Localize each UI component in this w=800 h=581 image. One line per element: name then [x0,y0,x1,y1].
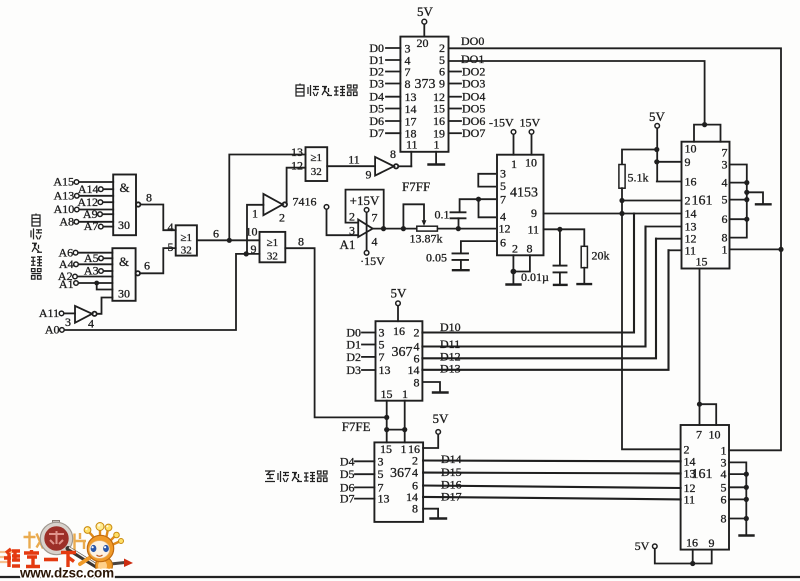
svg-text:6: 6 [722,212,728,226]
capacitor C3 lead to ground [559,272,561,284]
wire U5 pins 15 1 down to U6 pins 15 1 with bridge [387,401,405,443]
red spear tip [124,559,133,568]
wire A1 supply rail pin7 to pin4 [366,212,368,251]
svg-text:D4: D4 [340,454,355,468]
wire U3 pin 13 from D11 riser [646,226,682,228]
terminal A9 [98,212,103,217]
terminal 5V right [655,124,660,129]
wire D3 to U5 pin 13 [362,369,376,371]
svg-text:5V: 5V [433,411,450,426]
OR gate G5 74LS32 body [260,232,286,262]
wire net DO0 from U1 pin 2 right then down right edge to U4 pin 1 [449,48,782,450]
wire G1 output 8 to OR gate G3 input 4 [140,205,175,231]
svg-text:4: 4 [88,317,94,331]
wire U2 pin 9 output to clock bus and U3 pin 14 row [544,213,682,215]
wire net D16 from U6 pin 6 to U4 pin 12 [423,486,680,489]
terminal A2 [73,274,78,279]
trimmer arrow head [422,220,427,226]
svg-text:D14: D14 [441,452,462,466]
ground bar under U2 pin 2 [507,283,521,285]
5V lead to U5 pin 16 [397,306,399,322]
terminal -15V at U2 [511,130,516,135]
mascot antenna stalks [89,529,120,546]
svg-text:7416: 7416 [293,195,317,209]
svg-text:7: 7 [500,193,506,207]
wire A6 input to G2 [78,252,113,254]
svg-text:≥1: ≥1 [311,152,323,164]
svg-text:A1: A1 [59,277,74,291]
text wei ku yi xia red [4,549,76,567]
svg-text:7: 7 [696,428,702,442]
svg-text:A11: A11 [39,306,59,320]
ground stub from U3 output rail [747,192,763,204]
mascot left arm [80,558,90,565]
junction node DO0 at U3 pin 1 [778,247,783,252]
svg-text:11: 11 [685,243,697,257]
svg-text:10: 10 [246,225,258,239]
text zhi wei chu li qi left of U6 [265,471,275,482]
junction node G3 output to G4 branch [227,238,232,243]
svg-text:16: 16 [686,536,698,550]
svg-text:www.dzsc.com: www.dzsc.com [19,566,114,581]
5V wire at U4 pins 16 and 9 [655,549,712,564]
svg-text:11: 11 [527,223,539,237]
ground bar under U4 rail [740,534,754,536]
wire U1 pin 11 latch enable down to inverter output [410,152,412,167]
svg-text:&: & [119,180,129,195]
junction node 5V lower [654,159,659,164]
wire DO5 stub U1 pin 15 [449,108,462,110]
wire A12 input to G1 [103,201,114,203]
wire A3 input to G2 [103,270,112,272]
wire G8 output to U1 pin 11 [398,165,411,167]
svg-text:9: 9 [366,168,372,182]
junction node U3 rail pin 5 [744,197,749,202]
svg-text:1: 1 [511,157,517,171]
svg-text:A0: A0 [45,323,60,337]
wire R1 bottom to clock bus vertical and U4 pin 2 [622,188,681,449]
mascot legs [95,570,102,576]
magnifier knob [53,521,60,525]
ground bar under U6 pin 8 [431,517,447,519]
resistor R3 lead to ground [583,268,585,284]
svg-text:5V: 5V [417,4,434,19]
ground bar under C2 [453,269,469,271]
terminal A15 [74,180,79,185]
U4 clock jumper loop pins 7-10 [700,404,717,425]
svg-text:9: 9 [531,206,537,220]
svg-text:1: 1 [722,242,728,256]
junction node U3 rail pin 6 [744,217,749,222]
inverter G8 output bubble [394,164,398,168]
junction node clock bus U2 pin9 [619,211,624,216]
svg-text:5V: 5V [649,109,666,124]
NAND gate G1 74LS30 body [113,175,136,236]
terminal 15V at U2 [529,130,534,135]
svg-text:2: 2 [414,326,420,340]
terminal A1 [74,281,79,286]
mascot body [96,557,113,574]
5V supply wire to U1 pin 20 [423,24,425,36]
5V wire to node above 5.1k and U3 [657,128,682,182]
wire U2 pins 2 and 8 ground loop [513,255,530,284]
text zi wei chu li qi vertical at far left [32,214,40,227]
text zi wei chu li qi horizontal above U1 [296,84,304,97]
svg-text:20: 20 [417,36,429,50]
wire U4 pin 8 to rail [729,518,746,520]
svg-text:15: 15 [696,255,708,269]
text zhao outlined [24,532,44,549]
wire D6 stub to U1 pin 17 [386,120,400,122]
U3 clock jumper loop pins 10-7 [694,125,721,142]
svg-text:A8: A8 [59,214,74,228]
ground bar under C3 [554,284,567,286]
wire A0 from terminal to OR gate G5 input 9 [64,254,259,330]
capacitor C3 plate top [554,265,567,267]
mascot head hood [87,535,113,561]
wire branch up to OR gate G4 input 13 [229,155,305,241]
svg-text:D5: D5 [340,467,355,481]
svg-text:·15V: ·15V [360,254,385,268]
svg-text:D17: D17 [441,490,462,504]
staff extension to red tip [96,563,125,566]
wire net D10 from U5 pin 2 up to U3 pin 14 [422,214,634,333]
terminal A12 [98,200,103,205]
wire U3 pin 11 from D13 riser [669,249,682,251]
IC U5 74367 buffer body [376,321,423,401]
svg-text:16: 16 [393,324,405,338]
wire net D11 from U5 pin 4 up to U3 pin 13 [422,227,645,347]
OR gate G4 74LS32 body [306,147,328,181]
wire D2 to U5 pin 7 [362,356,376,358]
ground bar right of U3 [756,203,771,205]
wire U5 pin 8 to ground [422,382,440,392]
terminal 5V at U5 [396,301,401,306]
svg-text:2: 2 [279,211,285,225]
capacitor C3 plate bottom [554,271,567,273]
wire U4 pin 3 to tied outputs rail [729,462,746,535]
resistor R2 13.87k body [417,226,438,231]
svg-text:-15V: -15V [489,116,514,130]
svg-text:3: 3 [349,224,355,238]
svg-text:4: 4 [722,176,728,190]
svg-text:11: 11 [406,138,418,152]
svg-text:F7FE: F7FE [342,419,371,434]
wire net D14 from U6 pin 2 to U4 pin 14 [423,459,680,462]
svg-text:A7: A7 [84,219,99,233]
svg-text:0.01µ: 0.01µ [521,270,549,284]
wire DO2 stub U1 pin 6 [449,71,462,73]
inverter G7 output bubble [92,312,96,316]
speed lines [0,552,12,562]
svg-text:8: 8 [412,502,418,516]
svg-text:5: 5 [378,467,384,481]
op-amp A1 triangle [358,220,373,238]
inverter G7 A11 triangle [75,306,92,323]
junction node A0 to 7416 input [244,251,249,256]
svg-text:15: 15 [381,387,393,401]
terminal A1 +15V supply [364,208,369,213]
svg-text:4: 4 [372,235,378,249]
wire U3 pin 4 to rail [730,182,747,184]
svg-text:A13: A13 [54,188,75,202]
svg-text:7: 7 [372,211,378,225]
svg-text:32: 32 [311,166,322,178]
svg-text:367: 367 [390,466,411,481]
wire G6 output up to G4 input 12 [287,168,306,204]
svg-text:12: 12 [499,222,511,236]
terminal A13 [75,194,80,199]
svg-text:A3: A3 [84,264,99,278]
wire G4 output 11 to inverter G8 input [327,165,375,167]
wire D7 stub to U1 pin 18 [386,132,400,134]
svg-text:0.1: 0.1 [435,208,450,222]
magnifier handle [68,549,97,567]
svg-text:1: 1 [434,138,440,152]
magnifier lens [42,524,70,552]
junction node U4 rail pin 6 [744,497,749,502]
svg-text:4: 4 [721,467,727,481]
wire U4 pin 6 to rail [729,498,746,500]
svg-text:13: 13 [291,145,303,159]
svg-text:1: 1 [402,387,408,401]
svg-text:8: 8 [527,242,533,256]
wire D6 to U6 pin 7 [355,486,374,488]
svg-text:8: 8 [405,77,411,91]
svg-text:6: 6 [144,259,150,273]
junction node U3 rail ground stub [744,190,749,195]
capacitor C2 plate top [453,252,469,254]
svg-text:10: 10 [525,156,537,170]
wire net D13 from U5 pin 14 up to U3 pin 11 [422,250,668,369]
junction node 5V upper [654,147,659,152]
wire D5 stub to U1 pin 14 [386,108,400,110]
wire net D15 from U6 pin 4 to U4 pin 13 [423,472,680,475]
svg-text:9: 9 [685,155,691,169]
svg-text:A14: A14 [78,182,99,196]
wire A11 to G7 input [64,312,75,314]
svg-text:9: 9 [251,242,257,256]
terminal A4 [74,262,79,267]
svg-text:5: 5 [168,240,174,254]
mascot face [89,541,109,559]
wire A14 input to G1 [103,188,113,190]
svg-text:10: 10 [709,428,721,442]
wire G5 output 8 right then down to F7FE node [285,248,386,417]
svg-text:6: 6 [213,227,219,241]
wire net DO1 from U1 pin 5 right then down to U3 clock jumper [449,61,705,125]
inverter G6 output bubble [283,202,287,206]
junction node U4 rail pin 5 [744,485,749,490]
terminal 5V at U4 [653,544,658,549]
svg-text:15V: 15V [520,116,541,130]
svg-text:4: 4 [168,220,174,234]
text pian outlined [75,533,87,551]
wire D0 stub to U1 pin 3 [386,47,400,49]
capacitor C1 0.1 top lead from 4153 pin7 wire [460,199,496,212]
wire U6 pin 8 to ground [423,509,438,518]
G1 output bubble [136,202,140,206]
terminal A8 [74,220,79,225]
svg-text:≥1: ≥1 [267,237,279,249]
svg-text:DO0: DO0 [461,34,484,48]
resistor R3 20k body [581,246,587,267]
terminal 5V at U1 [422,19,427,24]
ground bar under U5 pin 8 [433,391,448,393]
svg-text:4153: 4153 [510,186,538,201]
svg-text:4: 4 [412,466,418,480]
terminal op-amp input [324,205,329,210]
svg-text:14: 14 [685,207,697,221]
wire U4 pin 5 to rail [729,486,746,488]
junction node U3 rail pin 4 [744,180,749,185]
junction node U5 U6 bridge left [384,427,389,432]
svg-text:≥1: ≥1 [181,232,193,244]
svg-text:2: 2 [512,242,518,256]
wire A1 output to 4153 pin 12 [373,228,495,230]
svg-text:F7FF: F7FF [402,179,430,194]
junction node F7FE at U5 pin 15 [384,415,389,420]
terminal A0 [60,328,65,333]
svg-text:8: 8 [390,147,396,161]
wire D4 stub to U1 pin 13 [386,96,400,98]
svg-text:8: 8 [414,376,420,390]
svg-text:+15V: +15V [350,193,380,208]
wire net D12 from U5 pin 6 up to U3 pin 12 [422,239,656,359]
capacitor C1 bottom lead to output net [458,218,460,228]
wire A2 input to G2 [77,276,112,278]
wire A15 input to G1 [79,181,114,183]
svg-text:13.87k: 13.87k [410,232,443,246]
junction node U3 pin15 at U4 jumper [697,402,702,407]
svg-text:D2: D2 [346,350,361,364]
svg-text:161: 161 [692,467,713,482]
svg-text:367: 367 [392,345,413,360]
capacitor C3 0.01u lead from pin 11 node [559,229,561,265]
IC U6 74367 buffer body [374,442,423,522]
junction node U2 pin11 C3 [557,227,562,232]
wire A1 input to G2 with branch to second input [78,283,112,290]
svg-text:11: 11 [684,492,696,506]
ground lead U1 pin 1 [435,152,437,164]
svg-text:32: 32 [267,251,278,263]
trimmer feedback loop over R2 with arrow [403,204,424,228]
antenna bulbs [84,527,91,534]
terminal A5 [99,256,104,261]
terminal A11 [59,311,64,316]
svg-text:3: 3 [378,454,384,468]
wire G2 output 6 to OR gate G3 input 5 [140,248,176,273]
supply lead -15V to U2 pin 1 [513,134,515,155]
svg-text:2: 2 [349,210,355,224]
junction node A1 branch [94,281,99,286]
svg-text:12: 12 [291,159,303,173]
wire U3 pin 1 to DO0 line [730,248,782,250]
svg-text:DO7: DO7 [462,126,485,140]
wire 4153 pin7 branch down to pin 4 [479,199,496,217]
capacitor C2 0.05 lead from 4153 pin 6 [461,241,495,253]
junction node U4 rail pin 4 [744,472,749,477]
wire U3 pin 12 from D12 riser [656,238,682,240]
wire D4 to U6 pin 3 [355,460,374,462]
svg-text:A1: A1 [340,237,356,252]
svg-text:D7: D7 [340,492,355,506]
svg-text:0.05: 0.05 [426,251,447,265]
terminal A10 [75,207,80,212]
svg-text:161: 161 [692,194,713,209]
svg-text:13: 13 [379,363,391,377]
svg-text:D10: D10 [440,320,461,334]
wire A8 input to G1 [79,221,114,223]
wire U3 pin 5 to rail [730,199,747,201]
capacitor C1 plate bottom [451,217,466,219]
svg-text:5: 5 [722,193,728,207]
wire 5V node left to resistor R1 top [622,150,657,165]
wire clock bus to U3 pin 2 [622,200,682,202]
svg-text:30: 30 [118,287,130,301]
svg-text:D7: D7 [369,126,384,140]
svg-text:13: 13 [378,492,390,506]
ground bar under R3 [578,283,592,285]
terminal 5V at U6 [436,430,441,435]
wire DO7 stub U1 pin 19 [449,132,462,134]
resistor R1 5.1k body [619,165,625,189]
svg-text:30: 30 [118,218,130,232]
wire A10 input to G1 [79,209,113,211]
wire G6 input from A0 net [247,205,263,254]
wire DO6 stub U1 pin 16 [449,120,462,122]
svg-text:8: 8 [146,191,152,205]
bottom border line [0,576,800,578]
terminal A3 [99,269,104,274]
svg-text:1: 1 [401,442,407,456]
wire D1 stub to U1 pin 4 [386,59,400,61]
svg-text:6: 6 [500,236,506,250]
svg-text:8: 8 [721,512,727,526]
svg-text:5V: 5V [635,539,650,553]
svg-text:16: 16 [685,175,697,189]
OR gate G3 74LS32 body [176,225,197,255]
wire DO4 stub U1 pin 12 [449,96,462,98]
svg-text:3: 3 [65,315,71,329]
5V wire to U6 pin 16 [423,434,438,448]
wire D7 to U6 pin 13 [355,498,374,500]
capacitor C1 plate top [451,211,466,213]
svg-text:10: 10 [685,142,697,156]
mascot eyes [91,545,97,552]
svg-text:5V: 5V [391,286,408,301]
terminal A7 [99,224,104,229]
wire net D17 from U6 pin 14 to U4 pin 11 [423,497,680,500]
terminal A1 -15V supply [364,251,369,256]
junction node U5 U6 bridge right [402,427,407,432]
junction node C1 to signal [456,226,461,231]
svg-text:6: 6 [721,492,727,506]
ground bar under U1 pin 1 [429,163,445,165]
junction node DO1 at U3 jumper [702,122,707,127]
wire D0 to U5 pin 3 [362,332,376,334]
svg-text:9: 9 [439,77,445,91]
wire U2 pin 11 to C3 and R3 [544,229,585,246]
svg-text:D13: D13 [440,362,461,376]
wire U3 pin 3 to tied outputs rail [730,165,747,238]
wire G7 output to G2 lowest input [97,298,113,314]
svg-text:DO3: DO3 [462,77,485,91]
terminal A6 [73,250,78,255]
capacitor C2 lead to ground [460,260,462,270]
wire A4 input to G2 [78,263,112,265]
wire A13 input to G1 [79,195,113,197]
